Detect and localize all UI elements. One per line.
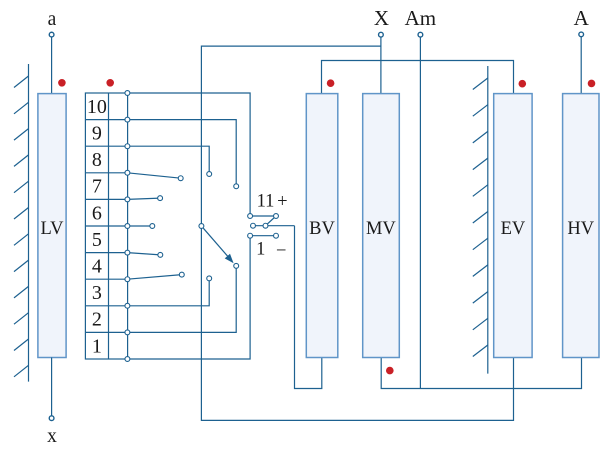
polarity dot HV	[588, 80, 596, 88]
tap winding box	[85, 93, 127, 359]
tap contact 2	[125, 330, 130, 335]
winding LV	[38, 94, 66, 358]
svg-text:4: 4	[92, 256, 102, 278]
contact 1- right	[274, 233, 279, 238]
right electrostatic screen (hatched)	[473, 66, 488, 374]
tap contact 6	[125, 224, 130, 229]
wire tap 3 lead	[127, 278, 209, 305]
selector fixed contact tap2	[234, 263, 239, 268]
left electrostatic screen (hatched)	[14, 64, 29, 382]
svg-text:7: 7	[92, 176, 102, 198]
svg-text:10: 10	[87, 96, 107, 118]
reversing switch row 1- link	[250, 235, 276, 237]
wire BV top to EV top link	[322, 61, 514, 94]
output contact left	[251, 223, 256, 228]
svg-text:HV: HV	[567, 219, 594, 239]
tap contact 7	[125, 197, 130, 202]
wire tap 11 to reversing switch contact	[127, 93, 250, 216]
wire tap 4 lead	[127, 275, 181, 280]
svg-text:LV: LV	[41, 219, 65, 239]
svg-text:11: 11	[257, 192, 275, 212]
selector fixed contact tap6	[150, 224, 155, 229]
selector fixed contact tap10	[234, 184, 239, 189]
polarity dot EV	[519, 80, 527, 88]
svg-text:9: 9	[92, 123, 102, 145]
wire reversing switch output to BV bottom	[295, 226, 322, 389]
wire tap 9 lead	[127, 146, 209, 174]
wire LV bottom to terminal x	[51, 358, 53, 417]
reversing switch output row link	[253, 225, 295, 227]
svg-text:−: −	[276, 241, 286, 261]
tap contact 1	[125, 357, 130, 362]
svg-text:5: 5	[92, 229, 102, 251]
tap contact 8	[125, 170, 130, 175]
polarity dot tap winding	[106, 79, 114, 87]
polarity dot BV	[327, 79, 335, 87]
svg-text:1: 1	[256, 239, 265, 259]
winding EV	[494, 94, 532, 358]
wire X horizontal, selector common column, bottom run to EV bottom	[201, 46, 513, 420]
wire X terminal to MV top	[380, 37, 382, 94]
wire MV bottom to HV bottom with Am junction	[381, 358, 581, 389]
selector fixed contact tap3	[207, 276, 212, 281]
svg-text:1: 1	[92, 335, 102, 357]
wire tap 6 lead	[127, 225, 152, 227]
svg-text:6: 6	[92, 202, 102, 224]
selector arm arrow	[203, 228, 228, 257]
svg-text:EV: EV	[501, 219, 526, 239]
wire tap 2 lead	[127, 266, 236, 333]
winding BV	[306, 94, 338, 358]
wire Am terminal down to lower bus	[419, 37, 421, 389]
tap contact 3	[125, 303, 130, 308]
winding HV	[563, 94, 599, 358]
wire terminal a to LV top	[51, 36, 53, 94]
contact 1- left	[248, 233, 253, 238]
polarity dot MV bottom	[386, 367, 394, 375]
wire tap 10 lead	[127, 120, 236, 187]
svg-text:BV: BV	[309, 219, 335, 239]
terminal X	[379, 32, 384, 37]
tap contact 11	[125, 91, 130, 96]
selector fixed contact tap4	[179, 272, 184, 277]
tap contact 10	[125, 117, 130, 122]
tap contact 4	[125, 277, 130, 282]
svg-text:a: a	[48, 9, 57, 30]
terminal x	[49, 416, 54, 421]
wire tap 1 to reversing switch contact	[127, 236, 250, 359]
wire tap 5 lead	[127, 253, 160, 255]
terminal A	[579, 32, 584, 37]
reversing switch blade (closed to 11+)	[266, 216, 277, 226]
wire tap 8 lead	[127, 173, 180, 178]
svg-text:x: x	[47, 426, 57, 447]
wire A terminal to HV top	[580, 37, 582, 94]
winding MV	[363, 94, 400, 358]
output contact right	[263, 223, 268, 228]
svg-text:2: 2	[92, 309, 102, 331]
selector fixed contact tap9	[207, 172, 212, 177]
selector common pivot	[199, 224, 204, 229]
svg-text:+: +	[277, 192, 287, 212]
reversing switch row 11+ link	[250, 215, 276, 217]
terminal a	[49, 32, 54, 37]
polarity dot LV	[58, 79, 66, 87]
selector fixed contact tap7	[158, 196, 163, 201]
svg-text:X: X	[374, 6, 389, 30]
contact 11+ left	[248, 214, 253, 219]
svg-text:Am: Am	[405, 6, 437, 30]
terminal Am	[418, 32, 423, 37]
selector fixed contact tap8	[178, 176, 183, 181]
svg-text:3: 3	[92, 282, 102, 304]
svg-text:8: 8	[92, 149, 102, 171]
selector fixed contact tap5	[158, 252, 163, 257]
wire tap 7 lead	[127, 198, 160, 199]
svg-text:MV: MV	[366, 219, 396, 239]
contact 11+ right	[274, 214, 279, 219]
tap contact 5	[125, 250, 130, 255]
tap contact 9	[125, 144, 130, 149]
svg-text:A: A	[574, 6, 590, 30]
